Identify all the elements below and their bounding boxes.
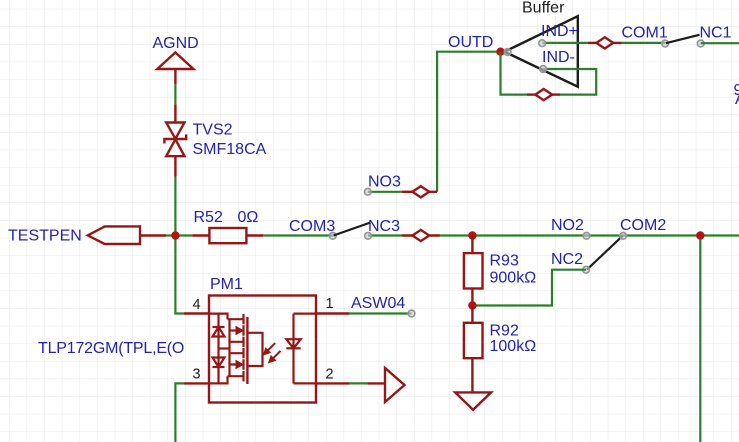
junction dot right bbox=[696, 231, 704, 239]
PM1 internal: mosfet teeth bbox=[228, 314, 244, 381]
svg-text:1: 1 bbox=[326, 296, 334, 312]
node NC1 pin bbox=[697, 40, 704, 47]
wire: PM1 pin3 down to bottom edge bbox=[175, 383, 184, 442]
switch lever COM3-NC3 bbox=[334, 223, 371, 236]
svg-text:TLP172GM(TPL,E(O: TLP172GM(TPL,E(O bbox=[38, 340, 184, 357]
svg-text:ASW04: ASW04 bbox=[351, 295, 405, 312]
ground symbol below R92 bbox=[455, 392, 491, 409]
PM1 internal: bottom rail pin3 bbox=[209, 376, 228, 383]
svg-text:100kΩ: 100kΩ bbox=[490, 338, 537, 355]
svg-text:TESTPEN: TESTPEN bbox=[8, 228, 82, 245]
PM1 internal: gate bus vertical bbox=[228, 319, 230, 376]
node NC2 pin bbox=[583, 266, 590, 273]
wire NO3 net bbox=[368, 186, 437, 197]
wire: right vertical from COM2 junction to bottom bbox=[699, 236, 701, 442]
node NO2 pin bbox=[583, 232, 590, 239]
node COM3 pin bbox=[329, 232, 336, 239]
svg-text:R93: R93 bbox=[490, 253, 519, 270]
PM1 internal: LED line right bbox=[286, 314, 316, 384]
wire: main horizontal net TESTPEN y=235.5 bbox=[140, 234, 739, 236]
node buffer output pin bbox=[504, 49, 511, 56]
svg-text:AGND: AGND bbox=[153, 35, 199, 52]
svg-text:NC3: NC3 bbox=[368, 218, 400, 235]
svg-text:IND+: IND+ bbox=[541, 23, 578, 40]
junction dot at TESTPEN/R52 bbox=[171, 231, 179, 239]
ground AGND symbol bbox=[157, 53, 193, 85]
svg-text:2: 2 bbox=[326, 367, 334, 383]
wire OUTD net bbox=[437, 52, 500, 192]
svg-text:NC1: NC1 bbox=[700, 25, 732, 42]
svg-text:NO3: NO3 bbox=[368, 174, 401, 191]
PM1 internal: light arrows bbox=[263, 343, 280, 363]
svg-text:TVS2: TVS2 bbox=[193, 122, 233, 139]
junction dot at buffer output bbox=[496, 48, 504, 56]
svg-text:0Ω: 0Ω bbox=[238, 209, 259, 226]
wire IND- feedback loop bbox=[501, 52, 597, 100]
PM1 pin 2 stub bbox=[316, 382, 350, 384]
PM1 pin 3 stub bbox=[184, 382, 209, 384]
wire: vertical from TESTPEN junction up through TVS to AGND bbox=[174, 84, 176, 235]
wire pin2 short green bbox=[350, 382, 368, 384]
junction dot at R93 top bbox=[468, 231, 476, 239]
svg-text:PM1: PM1 bbox=[210, 276, 243, 293]
resistor R92 bbox=[464, 306, 483, 393]
node COM2 pin bbox=[620, 232, 627, 239]
svg-text:A: A bbox=[735, 91, 739, 108]
node NO3 pin bbox=[364, 188, 371, 195]
wire pin1 to ASW04 bbox=[350, 312, 412, 314]
svg-text:R52: R52 bbox=[194, 209, 223, 226]
svg-text:OUTD: OUTD bbox=[448, 34, 493, 51]
wire NC1 to right edge bbox=[701, 42, 739, 44]
svg-text:R92: R92 bbox=[490, 323, 519, 340]
switch lever COM2-NC2 bbox=[587, 236, 623, 270]
PM1 internal: body-diode line bbox=[213, 314, 225, 384]
svg-text:SMF18CA: SMF18CA bbox=[193, 141, 267, 158]
node NC3 pin bbox=[365, 232, 372, 239]
svg-text:Buffer: Buffer bbox=[522, 0, 565, 17]
wire: vertical down to PM1 pin4 bbox=[175, 236, 184, 314]
node IND+ pin bbox=[539, 40, 546, 47]
PM1 pin 4 stub bbox=[184, 312, 209, 314]
wire IND+ net to COM1 bbox=[542, 37, 665, 48]
PM1 pin 1 stub bbox=[316, 312, 350, 314]
PM1 internal: channel bar bbox=[246, 317, 248, 384]
optocoupler PM1 box bbox=[209, 296, 316, 403]
svg-text:IND-: IND- bbox=[542, 49, 575, 66]
resistor R52 bbox=[192, 228, 263, 243]
svg-text:COM1: COM1 bbox=[622, 25, 668, 42]
svg-text:COM3: COM3 bbox=[289, 218, 335, 235]
PM1 internal: gate loop box bbox=[247, 333, 262, 366]
PM1 internal: top rail pin4 bbox=[209, 314, 228, 320]
port TESTPEN flag bbox=[88, 226, 140, 244]
TVS diode TVS2 bbox=[164, 104, 186, 176]
svg-text:4: 4 bbox=[193, 297, 201, 313]
svg-text:NO2: NO2 bbox=[551, 217, 584, 234]
op-amp buffer triangle bbox=[505, 16, 578, 87]
svg-text:NC2: NC2 bbox=[551, 251, 583, 268]
wire NC2 to R93/R92 junction bbox=[476, 270, 586, 306]
diamond marker on NC3 net bbox=[402, 230, 440, 241]
svg-text:900kΩ: 900kΩ bbox=[490, 270, 537, 287]
PM1 internal: middle connector bbox=[219, 347, 230, 349]
resistor R93 bbox=[464, 236, 483, 306]
node COM1 pin bbox=[662, 40, 669, 47]
svg-text:COM2: COM2 bbox=[620, 217, 666, 234]
svg-text:3: 3 bbox=[193, 367, 201, 383]
junction dot between R93 and R92 bbox=[468, 301, 476, 309]
node ASW04 pin bbox=[408, 310, 415, 317]
port arrow at pin2 bbox=[367, 368, 404, 402]
switch lever COM1-NC1 bbox=[666, 35, 700, 43]
node IND- pin bbox=[540, 66, 547, 73]
